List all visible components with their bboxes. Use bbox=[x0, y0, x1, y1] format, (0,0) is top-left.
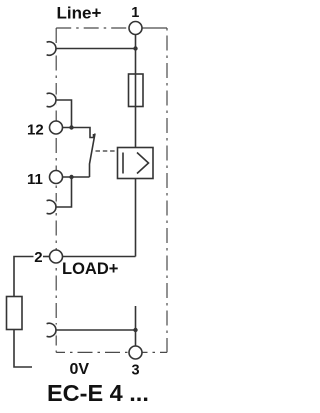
svg-text:1: 1 bbox=[131, 5, 139, 21]
wire terminal 12 to switch contact bbox=[63, 128, 94, 138]
wire terminal 11 bbox=[63, 176, 90, 178]
wire block output down bbox=[135, 179, 137, 257]
svg-text:0V: 0V bbox=[70, 361, 90, 378]
terminal 2 bbox=[50, 250, 63, 263]
wire to terminal 2 LOAD+ bbox=[63, 256, 136, 258]
terminal 12 bbox=[50, 121, 63, 134]
switch blade S1 bbox=[90, 134, 96, 178]
gap in boundary at socket 12 bbox=[50, 95, 57, 106]
wire 0V rail bbox=[57, 329, 136, 331]
svg-text:LOAD+: LOAD+ bbox=[62, 260, 118, 278]
svg-text:11: 11 bbox=[27, 171, 43, 188]
module boundary bottom dashed line bbox=[56, 351, 167, 353]
wire resistor to 0V return bbox=[14, 330, 32, 368]
wire terminal 2 to load resistor bbox=[43, 256, 50, 258]
module boundary top dashed line bbox=[56, 27, 142, 29]
terminal 3 bbox=[129, 346, 142, 359]
wire Line+ input to rail junction bbox=[57, 48, 136, 50]
svg-text:3: 3 bbox=[132, 363, 140, 379]
junction node 11 branch bbox=[69, 175, 73, 179]
wire 0V rail down to terminal 3 bbox=[135, 330, 137, 347]
wire fuse to electronic block bbox=[135, 107, 137, 148]
fuse F1 bbox=[129, 74, 144, 107]
junction node at Line+ rail bbox=[133, 46, 137, 50]
wire socket to node 12 bbox=[57, 100, 72, 128]
connector socket 0V bbox=[47, 323, 56, 337]
wire node 11 to socket bbox=[57, 177, 72, 207]
module boundary right dashed line bbox=[166, 28, 168, 352]
gap in boundary at socket 0V bbox=[50, 325, 57, 336]
load resistor R bbox=[7, 297, 23, 330]
junction node 12 branch bbox=[69, 125, 73, 129]
svg-text:2: 2 bbox=[34, 249, 42, 266]
electronic breaker block U1 bbox=[118, 148, 154, 179]
wire 0V stub from electronics bbox=[135, 306, 137, 330]
module boundary top right solid segment bbox=[142, 27, 167, 29]
connector socket branch 12 bbox=[47, 93, 56, 107]
junction node 0V rail bbox=[133, 328, 137, 332]
gap in boundary at socket 11 bbox=[50, 202, 57, 213]
terminal 1 bbox=[129, 22, 142, 35]
connector socket Line+ bbox=[47, 42, 56, 56]
wire terminal 1 down to fuse bbox=[135, 35, 137, 75]
terminal 11 bbox=[50, 171, 63, 184]
svg-text:Line+: Line+ bbox=[57, 3, 102, 22]
svg-text:12: 12 bbox=[27, 122, 44, 139]
svg-text:EC-E 4 ...: EC-E 4 ... bbox=[47, 380, 149, 406]
dashed actuator link switch to block bbox=[96, 150, 118, 152]
module boundary left dashed line bbox=[55, 28, 57, 352]
gap in boundary at Line+ socket bbox=[50, 43, 57, 54]
connector socket branch 11 bbox=[47, 200, 56, 214]
